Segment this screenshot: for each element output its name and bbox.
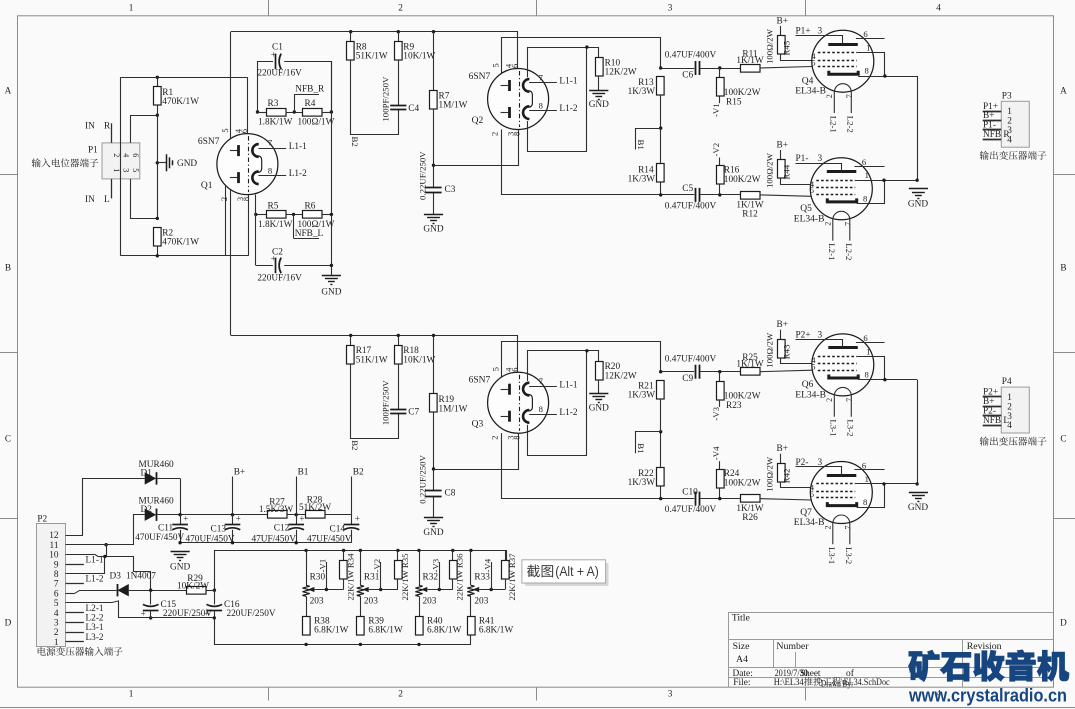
svg-text:L3-1: L3-1 (827, 547, 837, 564)
svg-text:Drawn By:: Drawn By: (821, 680, 853, 690)
capacitor C10 (695, 492, 697, 506)
wire heater bottom rail (215, 618, 471, 645)
svg-text:5: 5 (810, 489, 814, 499)
resistor R1 (157, 77, 159, 115)
svg-text:B+: B+ (777, 17, 788, 27)
resistor R20 (596, 362, 604, 381)
svg-text:100K/2W: 100K/2W (724, 88, 761, 98)
svg-text:NFB_R: NFB_R (295, 85, 325, 95)
Q4 pin 1 lead to cathode node (857, 53, 885, 77)
svg-text:1: 1 (865, 474, 869, 484)
svg-text:1M/1W: 1M/1W (439, 101, 468, 111)
connector P2 (37, 524, 66, 647)
wire vertical A lower - Q1 grid2 down to channel 2 rail (231, 178, 239, 336)
svg-text:203: 203 (310, 597, 324, 607)
resistor R45 (778, 36, 786, 55)
svg-text:2: 2 (398, 689, 403, 699)
svg-text:C10: C10 (682, 488, 698, 498)
svg-text:C5: C5 (682, 184, 693, 194)
resistor R36 22K (451, 549, 454, 552)
svg-text:6SN7: 6SN7 (198, 137, 220, 147)
resistor R17 (349, 334, 352, 337)
svg-text:C9: C9 (682, 374, 693, 384)
svg-text:R12: R12 (742, 210, 758, 220)
svg-text:R44: R44 (782, 164, 792, 179)
svg-text:1K/3W: 1K/3W (628, 175, 656, 185)
svg-text:A: A (5, 85, 12, 95)
svg-text:L1-1: L1-1 (289, 142, 307, 152)
svg-text:100PF/250V: 100PF/250V (381, 380, 391, 426)
svg-text:-V1: -V1 (711, 103, 721, 117)
svg-text:P3: P3 (1002, 91, 1012, 101)
capacitor C1 (258, 62, 273, 113)
svg-text:B1: B1 (636, 140, 646, 150)
svg-text:-V3: -V3 (711, 406, 721, 420)
resistor R2 (156, 217, 159, 220)
resistor R25 (741, 368, 761, 376)
svg-text:6.8K/1W: 6.8K/1W (427, 626, 462, 636)
svg-text:1: 1 (112, 168, 121, 172)
ground GND input bus (322, 275, 341, 277)
svg-text:C3: C3 (445, 185, 456, 195)
svg-text:B2: B2 (353, 468, 364, 478)
svg-text:GND: GND (423, 225, 443, 235)
svg-text:2: 2 (54, 628, 59, 638)
svg-text:203: 203 (423, 597, 437, 607)
tube Q3 6SN7 (488, 372, 549, 433)
wiper R31 (362, 587, 369, 592)
svg-text:5: 5 (492, 63, 501, 67)
svg-text:6SN7: 6SN7 (469, 376, 491, 386)
svg-text:B: B (5, 262, 11, 272)
capacitor C3 (425, 187, 441, 189)
svg-text:D2: D2 (141, 505, 153, 515)
svg-text:1.8K/1W: 1.8K/1W (258, 220, 293, 230)
resistor R7 (432, 30, 435, 33)
svg-text:0.22UF/250V: 0.22UF/250V (417, 454, 427, 503)
wire P2 pin 10 heater run (66, 555, 151, 591)
wiper R33 (473, 587, 480, 592)
svg-text:(Alt + A): (Alt + A) (555, 563, 599, 579)
tube Q5 EL34 (810, 158, 872, 220)
svg-text:L3-1: L3-1 (86, 623, 104, 633)
svg-text:L2-1: L2-1 (827, 243, 837, 260)
svg-text:EL34-B: EL34-B (795, 87, 826, 97)
svg-text:B1: B1 (298, 468, 309, 478)
svg-text:R15: R15 (726, 98, 742, 108)
svg-text:2: 2 (824, 222, 833, 226)
tube Q1 6SN7 (217, 134, 278, 195)
svg-text:NFB R: NFB R (983, 130, 1010, 140)
wire rail1b channel 1 (502, 38, 661, 86)
wire R19 tap to tube cathode (432, 467, 435, 470)
svg-text:C6: C6 (682, 71, 693, 81)
svg-text:L: L (104, 195, 110, 205)
capacitor C5 (695, 188, 697, 202)
svg-text:8: 8 (863, 193, 867, 203)
resistor R39 6.8K (357, 617, 365, 636)
svg-text:5: 5 (492, 367, 501, 371)
svg-text:EL34-B: EL34-B (794, 518, 825, 528)
svg-text:470K/1W: 470K/1W (162, 97, 199, 107)
svg-text:220UF/250V: 220UF/250V (227, 609, 276, 619)
svg-text:7: 7 (844, 222, 853, 226)
svg-text:-V1: -V1 (318, 559, 328, 573)
svg-text:R4: R4 (305, 99, 316, 109)
svg-text:220UF/16V: 220UF/16V (257, 274, 302, 284)
svg-text:C1: C1 (272, 43, 283, 53)
ground GND power (171, 551, 190, 553)
svg-text:9: 9 (54, 560, 59, 570)
Q5 cathode lead (857, 180, 885, 203)
svg-text:10: 10 (49, 551, 59, 561)
plate net label P2- 3 (796, 467, 842, 476)
svg-text:P2-: P2- (796, 458, 809, 468)
svg-text:+: + (183, 514, 188, 524)
net label NFB_L (292, 213, 295, 216)
wire P2 pin 5 run (66, 601, 215, 618)
svg-text:1: 1 (129, 3, 134, 13)
capacitor C4 (390, 105, 406, 107)
svg-text:P1: P1 (88, 146, 98, 156)
svg-text:6: 6 (863, 333, 868, 343)
svg-text:6: 6 (131, 153, 140, 157)
svg-text:6: 6 (862, 157, 867, 167)
svg-text:2: 2 (220, 197, 229, 201)
svg-text:6: 6 (511, 368, 520, 372)
svg-text:Q7: Q7 (800, 508, 812, 518)
svg-text:10K/1W: 10K/1W (403, 52, 435, 62)
svg-text:EL34-B: EL34-B (795, 390, 826, 400)
potentiometer R32 (417, 549, 420, 552)
wire R8 bottom to B2 corner (351, 60, 399, 135)
svg-text:0.47UF/400V: 0.47UF/400V (665, 505, 717, 515)
svg-text:3: 3 (818, 330, 823, 340)
plate net label P1- 3 (796, 164, 842, 172)
svg-text:1M/1W: 1M/1W (439, 404, 468, 414)
svg-text:L2-2: L2-2 (844, 243, 854, 260)
svg-text:R3: R3 (268, 99, 279, 109)
svg-text:100Ω/2W: 100Ω/2W (764, 332, 774, 368)
svg-text:100Ω/1W: 100Ω/1W (298, 118, 335, 128)
svg-text:-V4: -V4 (483, 558, 493, 572)
svg-text:+: + (141, 608, 146, 618)
svg-text:Q4: Q4 (802, 77, 814, 87)
svg-text:R30: R30 (310, 573, 326, 583)
svg-text:6.8K/1W: 6.8K/1W (479, 626, 514, 636)
wire R17 bottom to B2 corner (351, 364, 399, 439)
svg-text:L2-2: L2-2 (86, 614, 104, 624)
resistor R27 (268, 511, 288, 519)
svg-text:Number: Number (776, 641, 809, 652)
Q4 pin 6 lead (856, 38, 885, 40)
svg-text:C13: C13 (211, 525, 227, 535)
wire P1 pin 6 to R1 node (131, 116, 158, 143)
resistor R42 (778, 464, 786, 483)
svg-text:L1-2: L1-2 (559, 408, 577, 418)
resistor R5 (256, 214, 266, 216)
svg-text:Title: Title (732, 613, 751, 624)
wiper R30 (308, 587, 315, 592)
Q5 pin 6 lead (854, 166, 884, 168)
svg-text:IN: IN (85, 121, 95, 131)
Q7 pin 6 lead (854, 469, 884, 471)
svg-text:1: 1 (129, 689, 134, 699)
svg-text:220UF/16V: 220UF/16V (257, 69, 302, 79)
svg-text:2: 2 (112, 153, 121, 157)
svg-text:6: 6 (863, 29, 868, 39)
capacitor C9 (659, 370, 662, 373)
resistor R37 22K (505, 550, 507, 560)
resistor R14 (657, 164, 665, 183)
wiper R32 (421, 587, 428, 592)
resistor R35 22K (396, 549, 399, 552)
Q6 cathode wire to GND rail (858, 379, 917, 381)
node below R1 (156, 114, 159, 117)
ground below C8 (433, 497, 435, 518)
svg-text:1: 1 (865, 170, 869, 180)
svg-text:A: A (1060, 85, 1067, 95)
svg-text:1N4007: 1N4007 (126, 572, 156, 582)
svg-text:C7: C7 (408, 408, 419, 418)
svg-text:B1: B1 (636, 443, 646, 453)
svg-text:D: D (1060, 617, 1067, 627)
svg-text:P2: P2 (37, 515, 47, 525)
net label B1 channel 2 (659, 430, 662, 433)
net label NFB_R (293, 110, 296, 113)
Q1 bottom pin wires (225, 185, 227, 256)
Q7 cathode lead (857, 484, 885, 508)
net label -V2 (380, 562, 382, 590)
svg-text:5: 5 (131, 168, 140, 172)
svg-text:2: 2 (491, 132, 500, 136)
Q6 pin 1 lead to cathode node (857, 357, 885, 380)
svg-text:1: 1 (866, 43, 870, 53)
svg-text:11: 11 (50, 541, 59, 551)
svg-text:1.5K/3W: 1.5K/3W (259, 505, 294, 515)
diode D1 MUR460 (66, 479, 145, 536)
svg-text:100Ω/2W: 100Ω/2W (764, 152, 774, 188)
tube Q6 EL34 (812, 334, 874, 396)
svg-text:L1-2: L1-2 (559, 104, 577, 114)
svg-text:B+: B+ (234, 468, 245, 478)
svg-text:0.47UF/400V: 0.47UF/400V (665, 354, 717, 364)
net label -V4 (491, 562, 493, 590)
svg-text:R16: R16 (724, 166, 740, 176)
svg-text:1K/1W: 1K/1W (736, 56, 764, 66)
svg-text:470UF/450V: 470UF/450V (135, 533, 184, 543)
svg-text:22K/1W R34: 22K/1W R34 (346, 553, 356, 601)
capacitor C13 (232, 515, 234, 525)
svg-text:1K/1W: 1K/1W (736, 360, 764, 370)
svg-text:B2: B2 (350, 137, 360, 147)
svg-text:R42: R42 (782, 469, 792, 484)
svg-text:8: 8 (539, 100, 543, 110)
svg-text:1: 1 (54, 638, 59, 648)
P2 unconnected pin stubs with heater net labels (66, 564, 84, 566)
svg-text:3: 3 (818, 154, 823, 164)
svg-text:4: 4 (122, 153, 131, 157)
resistor R18 (397, 334, 400, 337)
svg-text:8: 8 (513, 436, 522, 440)
svg-text:2: 2 (398, 3, 403, 13)
svg-text:0.47UF/400V: 0.47UF/400V (665, 202, 717, 212)
svg-text:L3-2: L3-2 (844, 547, 854, 564)
svg-text:L1-1: L1-1 (559, 380, 577, 390)
wire P1 pins 3-4 column / left vertical (120, 77, 122, 256)
svg-text:3: 3 (668, 3, 673, 13)
svg-text:R26: R26 (742, 513, 758, 523)
wire plate loop R10 (528, 48, 599, 78)
svg-text:GND: GND (589, 100, 609, 110)
wire heater bias rail (215, 551, 507, 591)
svg-text:8: 8 (539, 404, 543, 414)
svg-text:L1-2: L1-2 (289, 169, 307, 179)
B+ rail (180, 514, 351, 516)
title block (728, 613, 730, 688)
resistor R9 (397, 30, 400, 33)
ground below R10 (598, 76, 600, 90)
svg-text:8: 8 (513, 132, 522, 136)
tube Q4 EL34 (812, 30, 874, 92)
wire Q1 cathode to C2 (255, 214, 257, 265)
svg-text:NFB L: NFB L (983, 416, 1009, 426)
ground EL34 pair channel 1 (909, 188, 928, 190)
svg-text:R31: R31 (364, 573, 380, 583)
svg-text:NFB_L: NFB_L (295, 229, 324, 239)
svg-text:10K/1W: 10K/1W (403, 355, 435, 365)
svg-text:7: 7 (268, 138, 273, 148)
resistor R34 22K (342, 549, 345, 552)
tube Q2 6SN7 (488, 69, 549, 130)
ground below R20 (598, 380, 600, 394)
svg-text:51K/1W: 51K/1W (356, 52, 388, 62)
wire rail1 channel 1 (231, 32, 518, 69)
svg-text:5: 5 (810, 185, 814, 195)
svg-text:Size: Size (733, 641, 751, 652)
svg-text:www.crystalradio.cn: www.crystalradio.cn (908, 686, 1067, 706)
svg-text:Q1: Q1 (201, 181, 213, 191)
svg-text:6.8K/1W: 6.8K/1W (368, 626, 403, 636)
svg-text:100K/2W: 100K/2W (724, 175, 761, 185)
capacitor C7 (390, 409, 406, 411)
potentiometer R31 (359, 549, 362, 552)
svg-text:+: + (204, 608, 209, 618)
svg-text:-V4: -V4 (711, 446, 721, 460)
wire P2 pin 8 up to heater run (66, 557, 105, 574)
svg-text:-V2: -V2 (372, 559, 382, 573)
svg-text:8: 8 (865, 66, 869, 76)
svg-text:B+: B+ (777, 141, 788, 151)
svg-text:7: 7 (54, 580, 59, 590)
wire GND vertical EL34 pair channel 1 (917, 76, 919, 180)
svg-text:R32: R32 (423, 573, 439, 583)
svg-text:-V2: -V2 (711, 143, 721, 157)
resistor R28 (306, 511, 326, 519)
resistor R8 (349, 30, 352, 33)
wire plate loop R20 (528, 351, 599, 381)
resistor R11 (741, 65, 761, 73)
ground EL34 pair channel 2 (909, 492, 928, 494)
resistor R4 (303, 109, 323, 117)
svg-text:L1-2: L1-2 (86, 575, 104, 585)
svg-text:3: 3 (668, 689, 673, 699)
svg-text:R24: R24 (724, 469, 740, 479)
svg-text:C14: C14 (330, 525, 346, 535)
svg-text:5: 5 (811, 361, 815, 371)
svg-text:-V3: -V3 (431, 558, 441, 572)
resistor R41 6.8K (468, 617, 476, 636)
svg-text:L2-2: L2-2 (846, 116, 856, 133)
svg-text:A4: A4 (736, 654, 748, 665)
svg-text:6.8K/1W: 6.8K/1W (314, 626, 349, 636)
svg-text:100K/2W: 100K/2W (724, 392, 761, 402)
svg-text:470K/1W: 470K/1W (162, 238, 199, 248)
svg-text:1K/3W: 1K/3W (628, 478, 656, 488)
svg-text:22K/1W R35: 22K/1W R35 (400, 553, 410, 601)
svg-text:Q3: Q3 (472, 420, 484, 430)
capacitor C15 (149, 589, 152, 592)
resistor R40 6.8K (416, 617, 424, 636)
resistor R13 (657, 77, 665, 96)
svg-text:10K/2W: 10K/2W (177, 582, 209, 592)
wire rail2 top (121, 77, 248, 79)
diode D3 1N4007 (66, 593, 76, 595)
svg-text:R: R (104, 121, 111, 131)
wire ground bus right of input (331, 61, 333, 275)
svg-text:8: 8 (865, 369, 869, 379)
wire GND vertical EL34 pair channel 2 (917, 380, 919, 484)
svg-text:L1-1: L1-1 (559, 77, 577, 87)
svg-text:2: 2 (824, 526, 833, 530)
resistor R6 (303, 211, 323, 219)
svg-text:L3-2: L3-2 (846, 419, 856, 436)
resistor R26 (741, 495, 761, 503)
svg-text:C4: C4 (408, 104, 419, 114)
svg-text:P4: P4 (1002, 377, 1012, 387)
svg-text:8: 8 (863, 497, 867, 507)
net label B1 channel 1 (659, 126, 662, 129)
svg-text:8: 8 (242, 197, 251, 201)
svg-text:2: 2 (825, 94, 834, 98)
capacitor C12 (296, 515, 298, 525)
wire P1 pin 5 to R2 top (131, 179, 158, 219)
svg-text:22K/1W R36: 22K/1W R36 (455, 553, 465, 601)
resistor R16 (717, 166, 725, 185)
P1 pin 1 lead / IN L stub (111, 179, 113, 199)
svg-text:7: 7 (845, 94, 854, 98)
ground GND tap input (156, 161, 159, 164)
svg-text:12: 12 (49, 531, 59, 541)
capacitor C6 (659, 66, 662, 69)
svg-text:1.8K/1W: 1.8K/1W (258, 118, 293, 128)
svg-text:3: 3 (122, 168, 131, 172)
svg-text:R33: R33 (474, 573, 490, 583)
wire bottom rail input (121, 255, 249, 257)
svg-text:12K/2W: 12K/2W (605, 371, 637, 381)
resistor R23 (718, 370, 721, 373)
svg-text:5: 5 (221, 128, 230, 132)
svg-text:GND: GND (321, 288, 341, 298)
svg-text:6: 6 (511, 64, 520, 68)
svg-text:H:\EL34: H:\EL34 (774, 678, 804, 688)
svg-text:51K/2W: 51K/2W (299, 503, 331, 513)
svg-text:B: B (1060, 262, 1066, 272)
svg-text:L2-1: L2-1 (829, 116, 839, 133)
wire grid2 down channel 1 (502, 129, 695, 194)
svg-text:3: 3 (818, 458, 823, 468)
svg-text:6: 6 (240, 129, 249, 133)
